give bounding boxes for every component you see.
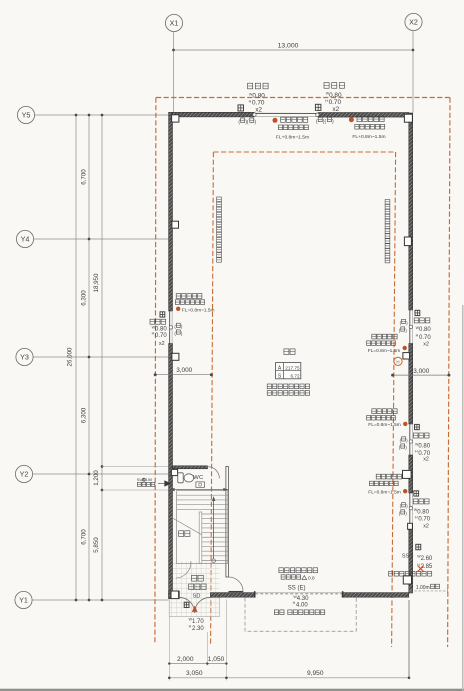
svg-text:0.80: 0.80 <box>329 92 342 99</box>
extension lines bottom <box>168 600 170 681</box>
smoke window note left wall <box>176 294 180 299</box>
svg-text:x2: x2 <box>423 457 429 463</box>
wc sink <box>196 482 205 487</box>
svg-text:FL=0.8m~1.5m: FL=0.8m~1.5m <box>368 489 401 495</box>
corridor dashed outline <box>245 598 356 631</box>
label uchitaoshi top-left <box>248 83 253 89</box>
svg-text:6,300: 6,300 <box>80 290 87 306</box>
axis line Y2 <box>33 473 169 475</box>
axis line Y1 <box>32 599 168 601</box>
understair closet diagonal <box>171 517 202 535</box>
svg-text:0.80: 0.80 <box>418 444 430 450</box>
stair bottom door arc <box>176 561 191 578</box>
svg-text:X1: X1 <box>170 19 179 28</box>
right block1: bou/uchitaoshi <box>415 310 420 315</box>
dimension chain 26,000 <box>75 115 77 600</box>
wall left upper <box>169 112 173 311</box>
svg-text:Y1: Y1 <box>19 596 28 605</box>
entrance double door arcs <box>179 597 194 612</box>
svg-text:0.80: 0.80 <box>417 509 429 515</box>
fire line inner right <box>392 152 396 647</box>
warehouse area table <box>276 363 301 379</box>
svg-text:FL+0.8m~1.5m: FL+0.8m~1.5m <box>276 135 309 141</box>
svg-text:0.80: 0.80 <box>419 327 431 333</box>
svg-text:5,850: 5,850 <box>93 537 100 553</box>
shutter opening dashed line <box>255 591 342 593</box>
bou/uchitaoshi left wall <box>160 312 165 317</box>
shutter end posts <box>254 591 256 597</box>
svg-text:x2: x2 <box>423 523 429 529</box>
extension line wc wall <box>102 466 172 468</box>
svg-text:13,000: 13,000 <box>278 43 299 50</box>
entrance marker triangle <box>192 606 198 612</box>
smoke window note top-right <box>349 117 354 122</box>
svg-text:FL=0.8m~1.5m: FL=0.8m~1.5m <box>182 308 215 314</box>
svg-text:FL+0.8m~1.5m: FL+0.8m~1.5m <box>352 134 385 140</box>
axis line X1 <box>173 32 175 112</box>
closet label 物入 <box>179 531 184 537</box>
svg-text:0.70: 0.70 <box>419 335 431 341</box>
svg-text:H: H <box>396 359 399 364</box>
dimension 13,000 top <box>174 49 414 51</box>
fire line inner left <box>211 152 214 645</box>
vertical caption left <box>217 197 222 202</box>
stair up arrow <box>213 500 215 560</box>
fire line inner top <box>213 151 395 153</box>
svg-text:WC: WC <box>193 475 203 481</box>
grid bubble Y2 <box>15 465 32 482</box>
wall right: segments with windows <box>409 113 413 310</box>
stair treads right run <box>202 513 228 515</box>
svg-text:217.75: 217.75 <box>285 365 300 370</box>
grid bubble X2 <box>405 13 422 30</box>
dimension 2,000 / 1,050 <box>169 663 226 665</box>
svg-text:6,700: 6,700 <box>80 529 87 545</box>
warehouse door arc <box>229 577 244 592</box>
red cross mark <box>418 566 424 572</box>
right block2: bou/uchitaoshi <box>415 424 420 429</box>
window top wall <box>254 112 318 114</box>
dimension chain 18,950/1,200/5,850 <box>101 115 103 600</box>
axis line Y3 <box>33 356 168 358</box>
stair center rail <box>199 512 202 564</box>
wc partition wall <box>173 466 208 469</box>
svg-text:SS: SS <box>402 553 410 559</box>
svg-text:0.70: 0.70 <box>155 333 167 339</box>
fire hydrant circle <box>394 357 402 365</box>
svg-text:4.30: 4.30 <box>297 596 309 602</box>
bou mark entrance <box>184 602 189 607</box>
wall left lower <box>169 344 173 599</box>
stair enclosure <box>177 491 228 564</box>
smoke note right wall B <box>372 409 376 414</box>
svg-text:Y5: Y5 <box>22 111 31 120</box>
grid bubble Y4 <box>16 230 33 247</box>
svg-text:2,000: 2,000 <box>177 656 194 663</box>
svg-text:SD: SD <box>193 594 201 600</box>
grid bubble Y1 <box>15 591 32 608</box>
warehouse label souko <box>284 349 289 355</box>
svg-text:FL=0.8m~1.5m: FL=0.8m~1.5m <box>368 348 401 354</box>
hall right partition <box>226 467 229 578</box>
right block4: SS door <box>416 544 421 549</box>
window left wall <box>169 311 171 344</box>
svg-text:1.70: 1.70 <box>192 619 204 625</box>
sus pipe symbol <box>164 480 172 486</box>
bou mark top-left <box>238 105 244 111</box>
shutter slat label <box>281 575 285 579</box>
label uchitaoshi top-right <box>324 83 329 89</box>
svg-text:18,950: 18,950 <box>93 273 100 292</box>
bou mark top-right <box>315 104 321 110</box>
grid bubble Y3 <box>16 348 33 365</box>
svg-text:)(: )( <box>323 119 327 125</box>
svg-text:x2: x2 <box>159 341 165 347</box>
svg-text:)(: )( <box>245 120 249 126</box>
wall bottom segment right of shutter <box>342 593 409 598</box>
suiatsu label <box>389 571 393 576</box>
svg-text:2.60: 2.60 <box>421 556 433 562</box>
columns on walls <box>172 115 179 122</box>
svg-text:3,000: 3,000 <box>413 368 429 375</box>
svg-text:3,000: 3,000 <box>176 367 192 374</box>
entrance-left wall corner <box>169 591 180 599</box>
fire line outer top <box>156 97 450 99</box>
svg-text:Y4: Y4 <box>21 235 30 244</box>
svg-text:0.80: 0.80 <box>252 93 265 100</box>
wc door arc <box>208 467 220 479</box>
svg-text:1,050: 1,050 <box>208 656 225 663</box>
dimension chain 6,700/6,300/6,300/6,700 <box>88 115 90 600</box>
right block3: bou/uchitaoshi <box>414 491 419 496</box>
axis line X2 <box>412 31 414 113</box>
scan edge right <box>462 305 464 691</box>
svg-text:Y2: Y2 <box>20 470 29 479</box>
smoke note right wall C <box>376 474 380 479</box>
axis line Y5 <box>35 114 169 116</box>
entrance hall floor hatch <box>169 562 220 617</box>
svg-text:Y3: Y3 <box>20 353 29 362</box>
smoke window note top-left <box>273 118 278 123</box>
svg-text:100: 100 <box>146 477 153 482</box>
svg-text:SS (E): SS (E) <box>288 585 306 591</box>
svg-text:X2: X2 <box>409 18 418 27</box>
axis line Y4 <box>34 238 169 240</box>
fire line outer right <box>448 98 450 648</box>
smoke note right wall A <box>372 334 376 339</box>
svg-text:1,200: 1,200 <box>93 470 100 486</box>
stair treads upper run <box>177 494 228 496</box>
corridor note <box>274 610 278 615</box>
svg-text:1.00m: 1.00m <box>416 585 430 591</box>
wall bottom segment left of shutter <box>210 593 255 598</box>
toilet <box>178 473 183 483</box>
fire line outer left <box>155 98 156 645</box>
svg-text:x2: x2 <box>333 106 340 113</box>
genkan label <box>192 575 197 581</box>
shutter label dendou <box>279 568 283 573</box>
svg-text:2.30: 2.30 <box>192 626 204 632</box>
dimension 3,050 / 9,950 <box>169 677 409 679</box>
svg-text:0.80: 0.80 <box>155 327 167 333</box>
warehouse notes <box>267 384 271 389</box>
svg-text:6,700: 6,700 <box>80 169 87 185</box>
svg-text:4.00: 4.00 <box>296 602 308 608</box>
svg-text:0.8: 0.8 <box>308 576 315 582</box>
wall top (with center window) <box>169 112 254 117</box>
hall label <box>189 584 194 590</box>
vertical caption right <box>385 200 390 205</box>
svg-text:6.72: 6.72 <box>290 373 300 378</box>
svg-text:0.70: 0.70 <box>418 517 430 523</box>
svg-text:3,050: 3,050 <box>186 670 203 677</box>
svg-text:6,300: 6,300 <box>80 407 87 423</box>
grid bubble X1 <box>165 14 182 31</box>
grid bubble Y5 <box>17 106 34 123</box>
svg-text:FL=0.8m~1.5m: FL=0.8m~1.5m <box>368 422 401 428</box>
svg-text:9,950: 9,950 <box>307 670 324 677</box>
svg-text:x2: x2 <box>423 342 429 348</box>
stair top line with arrows <box>173 489 228 491</box>
svg-text:26,000: 26,000 <box>66 347 73 366</box>
extension line stair wall <box>102 489 173 491</box>
scan edge bottom <box>0 689 464 691</box>
svg-text:x2: x2 <box>255 106 262 113</box>
